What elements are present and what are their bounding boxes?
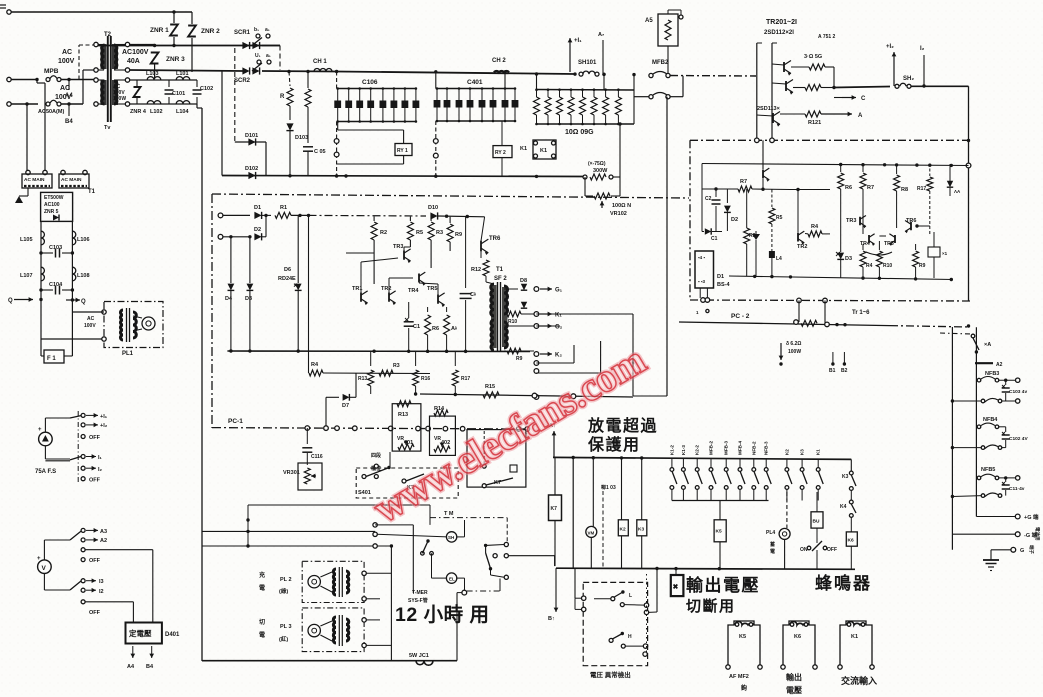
transistor TR4 amp <box>418 274 420 283</box>
svg-text:100V: 100V <box>84 323 96 329</box>
svg-text:PL1: PL1 <box>122 351 134 357</box>
resistor R3 vert <box>746 189 748 228</box>
svg-text:TR6: TR6 <box>906 218 916 224</box>
capacitor C105 <box>303 146 313 148</box>
zener D6 RD24E <box>297 215 299 283</box>
svg-text:SCR2: SCR2 <box>234 78 251 84</box>
resistor R3b <box>379 370 393 376</box>
svg-text:D1: D1 <box>254 205 261 211</box>
svg-text:ΛA: ΛA <box>954 189 961 194</box>
svg-text:+I₂: +I₂ <box>886 44 894 50</box>
svg-text:D6: D6 <box>284 267 291 273</box>
svg-text:12 小時 用: 12 小時 用 <box>395 603 490 626</box>
svg-text:TR5: TR5 <box>427 286 437 292</box>
ammeter switch <box>77 411 79 482</box>
resistor R11 out <box>504 350 506 352</box>
svg-text:A2: A2 <box>100 538 107 544</box>
svg-text:▪4 ▪: ▪4 ▪ <box>698 255 705 260</box>
svg-text:AC50A(M): AC50A(M) <box>38 109 64 115</box>
svg-text:K3: K3 <box>800 449 805 455</box>
svg-text:交流輸入: 交流輸入 <box>841 675 877 686</box>
svg-text:AC100: AC100 <box>44 202 60 208</box>
ground <box>27 188 29 196</box>
svg-text:G₂: G₂ <box>555 325 563 331</box>
output terminals <box>534 287 539 292</box>
contact K3b <box>850 459 852 471</box>
svg-text:C1: C1 <box>711 236 718 242</box>
diode C401-8 <box>514 89 516 122</box>
resistor R5 amp <box>409 217 411 221</box>
svg-text:ZNR 5: ZNR 5 <box>44 209 59 215</box>
svg-text:B↑: B↑ <box>548 616 555 622</box>
wire long vertical left column <box>196 104 198 108</box>
wire A1 riser <box>553 431 555 457</box>
svg-text:K1: K1 <box>520 146 527 152</box>
diode D7 <box>325 397 327 426</box>
svg-text:C104: C104 <box>49 282 63 288</box>
wire rail to right corner <box>911 85 969 87</box>
svg-text:L103: L103 <box>146 71 159 77</box>
lamp EL <box>446 573 456 583</box>
wire rail B to banks <box>337 72 575 75</box>
resistor R9 amp <box>449 217 451 223</box>
svg-text:100W: 100W <box>113 96 126 102</box>
varistor ZNR1 <box>173 12 175 23</box>
relay coil K1 <box>840 621 872 667</box>
svg-text:鉤: 鉤 <box>740 684 747 692</box>
wire down to PL1 <box>40 300 42 356</box>
svg-text:SCR1: SCR1 <box>234 30 251 36</box>
transistor TR6 pc2 <box>910 222 912 231</box>
svg-text:D4: D4 <box>225 296 233 302</box>
arrow +I1 <box>569 38 571 72</box>
box VR401 <box>392 404 421 451</box>
svg-text:R16: R16 <box>421 376 430 382</box>
relay contact box K7b <box>467 430 526 488</box>
svg-text:C106: C106 <box>362 79 378 86</box>
svg-text:K6: K6 <box>794 634 801 640</box>
svg-text:2SD113×: 2SD113× <box>757 106 780 112</box>
svg-text:R4: R4 <box>311 362 319 368</box>
svg-text:I₂: I₂ <box>920 46 925 52</box>
svg-text:EL: EL <box>449 577 455 582</box>
svg-text:AC: AC <box>60 85 70 92</box>
svg-text:K6: K6 <box>848 538 854 544</box>
svg-text:D3: D3 <box>845 256 852 262</box>
node ZNR1 top junction <box>172 10 175 13</box>
contact L <box>611 597 615 601</box>
svg-text:ZNR 2: ZNR 2 <box>201 28 220 35</box>
terminal L input <box>7 77 11 81</box>
resistor R17 <box>454 352 456 366</box>
svg-text:100Ω N: 100Ω N <box>612 203 631 209</box>
svg-text:R10: R10 <box>508 319 517 325</box>
diode D4 amp <box>230 237 232 283</box>
svg-text:R7: R7 <box>867 185 874 191</box>
svg-text:蜂鳴器: 蜂鳴器 <box>815 573 872 593</box>
svg-text:+I₁: +I₁ <box>100 414 108 420</box>
svg-text:切斷用: 切斷用 <box>686 597 736 615</box>
svg-text:100W: 100W <box>788 349 801 355</box>
wire bus 428 <box>212 428 527 429</box>
svg-text:×1: ×1 <box>942 251 948 256</box>
svg-text:輸出電壓: 輸出電壓 <box>686 575 760 595</box>
svg-text:D101: D101 <box>245 133 258 139</box>
svg-text:10Ω 09G: 10Ω 09G <box>565 129 594 136</box>
relay box K7 <box>554 458 556 495</box>
svg-text:75A F.S: 75A F.S <box>35 469 56 475</box>
svg-text:L: L <box>629 593 632 599</box>
diode C106-5 <box>382 89 384 122</box>
svg-text:AC MAIN: AC MAIN <box>24 177 45 183</box>
svg-text:K1-3: K1-3 <box>681 445 686 455</box>
svg-text:L106: L106 <box>77 237 90 243</box>
transistor TR6 amp <box>480 241 482 252</box>
svg-text:F 1: F 1 <box>47 356 56 362</box>
connector circles timer <box>373 523 377 527</box>
svg-text:ZNR 4: ZNR 4 <box>130 109 147 115</box>
svg-text:A2: A2 <box>996 362 1003 368</box>
wire pc2 bottom bus <box>729 276 953 280</box>
svg-text:R17: R17 <box>917 186 926 192</box>
arrow I2 <box>923 55 925 86</box>
svg-text:I₂: I₂ <box>98 467 103 473</box>
wire A7 stub <box>602 40 604 74</box>
svg-text:C103 4v: C103 4v <box>1009 389 1027 395</box>
switch ONOFF <box>816 528 818 543</box>
lamp PL4 <box>786 492 788 528</box>
terminal G <box>991 549 1011 551</box>
ground right <box>952 549 991 551</box>
svg-text:(紅): (紅) <box>279 635 288 643</box>
resistor bank-6 <box>593 90 595 98</box>
resistor R6 pc2 <box>840 164 842 173</box>
svg-text:電壓: 電壓 <box>786 685 802 695</box>
svg-text:L108: L108 <box>77 273 90 279</box>
svg-text:40A: 40A <box>127 58 140 65</box>
relay contact K3 <box>801 459 803 467</box>
ammeter A <box>39 432 53 446</box>
wire timer bottom bus <box>202 660 457 662</box>
svg-text:電圧 異常檢出: 電圧 異常檢出 <box>590 670 631 679</box>
wire lower bus y176 <box>222 176 585 177</box>
diode C401-1 <box>436 89 438 122</box>
box output-cut icon <box>671 575 684 596</box>
relay contact K2-2 <box>696 458 698 467</box>
svg-text:K5: K5 <box>739 634 746 640</box>
svg-text:K5: K5 <box>716 529 722 535</box>
svg-text:Cʇ: Cʇ <box>470 292 476 298</box>
box voltage detect <box>583 582 647 665</box>
relay contact NFB-3 <box>765 459 767 468</box>
outlet box AC MAIN 2 <box>61 170 65 174</box>
svg-text:5W JC1: 5W JC1 <box>409 653 429 659</box>
box VR402 <box>430 416 456 455</box>
resistor R17 pc2 <box>929 164 931 177</box>
svg-text:(×-75Ω): (×-75Ω) <box>588 161 606 167</box>
svg-text:PC-1: PC-1 <box>228 418 243 425</box>
resistor bank-3 <box>559 90 561 98</box>
svg-text:L4: L4 <box>776 256 782 262</box>
svg-text:A 751 2: A 751 2 <box>818 34 836 40</box>
breaker ACMAIN <box>46 102 50 106</box>
svg-text:NFB5: NFB5 <box>981 467 995 473</box>
svg-text:端子: 端子 <box>1028 545 1035 554</box>
switch S401 box <box>356 468 458 498</box>
box K2 <box>618 520 628 536</box>
wire amp input 2 <box>218 234 223 239</box>
svg-text:2SD112×2I: 2SD112×2I <box>764 30 794 36</box>
resistor R10 out <box>504 313 506 315</box>
svg-text:VR301: VR301 <box>283 470 300 476</box>
svg-text:ZNR 1: ZNR 1 <box>150 27 169 34</box>
svg-text:R14: R14 <box>434 406 445 412</box>
resistor box A5 <box>658 14 678 46</box>
resistor under pc2 <box>801 320 817 326</box>
svg-text:AC100V: AC100V <box>122 49 149 56</box>
wire long vertical x667 <box>666 97 668 396</box>
svg-text:R: R <box>280 94 285 100</box>
diode D101 branch <box>235 141 266 143</box>
outlet box AC MAIN 1 <box>26 170 30 174</box>
svg-text:Tv: Tv <box>104 125 111 131</box>
wire <box>174 11 192 13</box>
transistor TRa inside PC2 <box>762 170 764 179</box>
transistor TR5 amp <box>437 294 439 304</box>
svg-text:100V: 100V <box>55 94 72 101</box>
resistor R7 <box>738 186 752 192</box>
svg-text:R9: R9 <box>919 263 926 269</box>
breaker MPB <box>46 78 50 82</box>
svg-text:R5: R5 <box>776 215 783 221</box>
svg-text:PL 3: PL 3 <box>280 624 292 630</box>
arrow +I2 <box>893 52 895 86</box>
svg-text:TR3: TR3 <box>846 218 856 224</box>
svg-text:D2: D2 <box>731 217 738 223</box>
contact NFB4b <box>952 447 982 449</box>
svg-text:+: + <box>38 427 42 433</box>
relay contact K2 <box>786 459 788 468</box>
svg-text:K1-2: K1-2 <box>669 445 674 455</box>
svg-text:T1: T1 <box>88 189 96 195</box>
diode C401-5 <box>481 89 483 122</box>
voltmeter V <box>38 560 52 574</box>
box T1 ZNR5 <box>41 192 73 221</box>
svg-text:R2: R2 <box>380 230 387 236</box>
zener D3 pc2 <box>837 253 844 260</box>
switch changeover mid <box>506 518 508 542</box>
diode D102 branch <box>221 72 223 176</box>
svg-text:充: 充 <box>259 571 265 579</box>
svg-text:BU: BU <box>813 519 820 525</box>
stub B1 B2 <box>832 352 834 363</box>
svg-text:R13: R13 <box>398 412 408 418</box>
svg-text:A5: A5 <box>645 18 653 24</box>
svg-text:R15: R15 <box>485 384 495 390</box>
svg-text:L105: L105 <box>20 237 33 243</box>
svg-text:SF 2: SF 2 <box>494 276 507 282</box>
wire contact links vd <box>624 604 644 607</box>
svg-text:R6: R6 <box>845 185 852 191</box>
resistor R3 amp <box>430 217 432 221</box>
transistor TR3 amp <box>403 250 405 260</box>
svg-text:MPB: MPB <box>44 68 59 75</box>
svg-text:AC: AC <box>62 49 72 56</box>
wire to D401 <box>152 550 154 623</box>
svg-text:VR102: VR102 <box>610 211 627 217</box>
diode D10 amp <box>430 212 437 219</box>
lamp box PL2 <box>302 561 364 602</box>
svg-text:啣1 03: 啣1 03 <box>601 484 616 491</box>
capacitor C102 <box>196 80 198 87</box>
svg-text:G₁: G₁ <box>555 288 563 294</box>
svg-text:BS-4: BS-4 <box>717 282 730 288</box>
svg-text:R4: R4 <box>811 224 819 230</box>
svg-text:(綠): (綠) <box>279 587 288 595</box>
svg-text:ET500W: ET500W <box>44 195 64 201</box>
timer switch <box>412 525 414 593</box>
inductor L104 <box>176 101 190 104</box>
svg-text:I2: I2 <box>99 589 104 595</box>
diode C106-1 <box>337 89 339 122</box>
svg-text:L104: L104 <box>176 109 189 115</box>
wire pc2 pair links <box>862 225 864 234</box>
inductor L107 <box>41 267 44 281</box>
wire relay top bus <box>553 457 851 459</box>
svg-text:K3: K3 <box>842 474 849 480</box>
svg-text:TR5: TR5 <box>884 241 894 247</box>
wire pc2 right links <box>917 225 930 227</box>
resistor bank-2 <box>547 90 549 98</box>
svg-text:PC - 2: PC - 2 <box>731 313 750 320</box>
svg-text:+I₁: +I₁ <box>574 38 582 44</box>
svg-text:AC MAIN: AC MAIN <box>61 177 82 183</box>
svg-text:切: 切 <box>259 619 265 626</box>
svg-text:TR4: TR4 <box>408 288 419 294</box>
svg-text:T M: T M <box>444 511 454 517</box>
svg-text:R3: R3 <box>393 363 400 369</box>
resistor R1 amp <box>262 214 271 216</box>
svg-text:A4: A4 <box>127 664 135 670</box>
svg-text:T1: T1 <box>496 267 504 273</box>
switch +A <box>971 334 975 338</box>
svg-text:K1: K1 <box>851 634 858 640</box>
resistor R121 <box>805 111 821 117</box>
svg-text:AF MF2: AF MF2 <box>729 674 749 680</box>
resistor R2 amp <box>373 217 375 222</box>
svg-text:D102: D102 <box>245 166 258 172</box>
svg-text:+: + <box>37 556 41 562</box>
capacitor C116 <box>306 428 308 444</box>
svg-text:R10: R10 <box>883 263 892 269</box>
svg-text:D7: D7 <box>342 403 349 409</box>
svg-text:H: H <box>628 634 632 640</box>
svg-text:C103: C103 <box>49 245 62 251</box>
resistor bank-5 <box>582 90 584 98</box>
svg-text:+G 端: +G 端 <box>1024 513 1039 521</box>
svg-text:3·Ω 5G: 3·Ω 5G <box>804 54 822 60</box>
svg-text:V: V <box>42 565 47 572</box>
capacitor C3 amp <box>465 217 467 288</box>
wire SH EL loop <box>457 536 465 538</box>
svg-text:a₁: a₁ <box>266 53 271 59</box>
svg-text:R9: R9 <box>455 232 462 238</box>
diode C106-6 <box>393 89 395 122</box>
svg-text:A3: A3 <box>100 529 107 535</box>
svg-text:R121: R121 <box>808 120 821 126</box>
svg-text:R3: R3 <box>436 230 443 236</box>
relay box RY1 <box>395 144 412 156</box>
svg-text:L101: L101 <box>176 71 189 77</box>
wire right bank vertical <box>633 75 635 124</box>
svg-text:×A: ×A <box>984 342 991 348</box>
svg-text:VM: VM <box>588 531 595 536</box>
capacitor C101b <box>1005 478 1007 482</box>
wire left ladder verticals <box>40 221 42 300</box>
svg-text:B2: B2 <box>841 368 848 374</box>
resistor R6 amp <box>427 307 429 312</box>
potentiometer VR102 <box>584 177 586 196</box>
svg-text:R9: R9 <box>516 356 523 362</box>
relay contact K1-2 <box>671 458 673 467</box>
lamp SH <box>446 532 456 542</box>
svg-text:蓄: 蓄 <box>770 541 775 548</box>
lamp PL1 <box>142 317 155 330</box>
wire output loop <box>536 313 633 315</box>
svg-text:D401: D401 <box>165 632 180 638</box>
resistor R15 <box>483 392 499 398</box>
wire internal bus <box>790 189 830 191</box>
svg-text:δ 6.2Ω: δ 6.2Ω <box>786 341 801 347</box>
svg-text:K1: K1 <box>540 148 547 154</box>
box K6 <box>850 518 852 532</box>
svg-text:SH: SH <box>448 535 454 540</box>
svg-text:ZNR 3: ZNR 3 <box>166 56 185 63</box>
diode C106-8 <box>415 89 417 122</box>
relay contact K1-3 <box>682 458 684 467</box>
svg-text:C401: C401 <box>467 79 483 86</box>
svg-text:B4: B4 <box>146 664 154 670</box>
diode C106-2 <box>348 89 350 122</box>
wire dash EL to switch <box>467 590 500 592</box>
svg-text:C 05: C 05 <box>314 149 326 155</box>
resistor bank-4 <box>570 90 572 98</box>
svg-text:TR2: TR2 <box>381 286 391 292</box>
svg-text:TR201~2I: TR201~2I <box>766 19 797 26</box>
svg-text:D103: D103 <box>295 135 308 141</box>
svg-text:NFB4: NFB4 <box>983 417 998 423</box>
capacitor C103 <box>41 252 53 254</box>
svg-text:C1: C1 <box>413 324 420 330</box>
diode D103 <box>286 123 293 130</box>
potentiometer VR301 <box>298 463 322 490</box>
svg-text:AC: AC <box>87 316 95 322</box>
relay box RY2 <box>493 146 512 158</box>
transistor TR201b <box>785 81 787 91</box>
svg-text:300W: 300W <box>593 168 608 174</box>
relay contact K1 <box>817 459 819 467</box>
fuse box F1 <box>44 350 64 363</box>
svg-text:L102: L102 <box>150 109 163 115</box>
svg-text:Aʇ: Aʇ <box>451 326 457 332</box>
inductor L106 <box>72 231 75 245</box>
wire PL links <box>366 572 391 574</box>
svg-text:OFF: OFF <box>89 610 101 616</box>
svg-text:R4: R4 <box>866 263 873 269</box>
wire C401 risers <box>435 72 437 89</box>
svg-text:SH₂: SH₂ <box>903 76 914 82</box>
relay contact box K1 <box>533 140 556 159</box>
